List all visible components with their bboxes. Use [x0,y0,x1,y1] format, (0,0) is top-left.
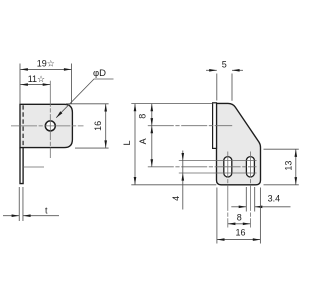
dim line t [3,215,19,217]
extension lines for t [18,187,20,221]
svg-text:16: 16 [93,121,103,131]
dim line 8 bottom [228,223,251,225]
dim line 4 (arrows outside) [182,151,184,210]
dim line 3.4 (arrows outside) [231,206,246,208]
hole horizontal centerline [11,125,84,127]
dim line 13 [295,149,297,184]
plate outline front view [20,104,72,147]
extension lines for 13 [264,148,299,150]
plate edge strip (thickness t) [213,103,217,149]
extension line left (x=20) [19,64,21,104]
bottom extension line (part bottom) [131,184,216,186]
svg-text:11☆: 11☆ [28,74,45,84]
extension line right (x=71.5) [71,64,73,104]
dim line 11 [20,84,50,86]
dim line 8 upper and A (x=151.8) [151,104,153,167]
dim line 5 (arrows outside) [206,69,217,71]
mystery short line at y=167 [23,166,44,168]
hole centerline (side view) [148,125,232,127]
svg-text:5: 5 [222,59,227,69]
bend hidden line [22,105,24,147]
svg-text:8: 8 [138,114,148,119]
svg-text:φD: φD [93,68,106,79]
right slot [246,157,254,177]
slot end-arc center lines [179,160,257,162]
svg-text:8: 8 [237,213,242,223]
leader phiD [56,79,113,118]
svg-text:4: 4 [171,196,181,201]
slot vertical centerlines [227,152,229,228]
svg-text:19☆: 19☆ [37,59,55,69]
extension lines for 3.4 [245,187,247,212]
top extension line (part top) [131,103,212,105]
left slot [224,157,232,177]
dim line 16 (left view) [105,104,107,148]
svg-text:13: 13 [283,161,293,171]
leg (edge view of perpendicular face) [20,148,23,184]
dim line L [134,104,136,185]
dim line 19 [20,68,71,70]
svg-text:16: 16 [235,228,245,238]
hole vertical centerline [49,81,51,158]
svg-text:L: L [122,140,132,145]
dim line 16 bottom [217,239,261,241]
body gusset and slotted face (side view) [217,103,261,184]
svg-text:A: A [138,138,148,144]
svg-text:3.4: 3.4 [268,193,281,203]
extension lines for 5 [216,74,218,101]
extension lines for 16 (left view) [66,103,109,105]
extension lines for 16 bottom [216,188,218,244]
slot center horizontal line [148,166,257,168]
hole phiD [45,121,55,131]
